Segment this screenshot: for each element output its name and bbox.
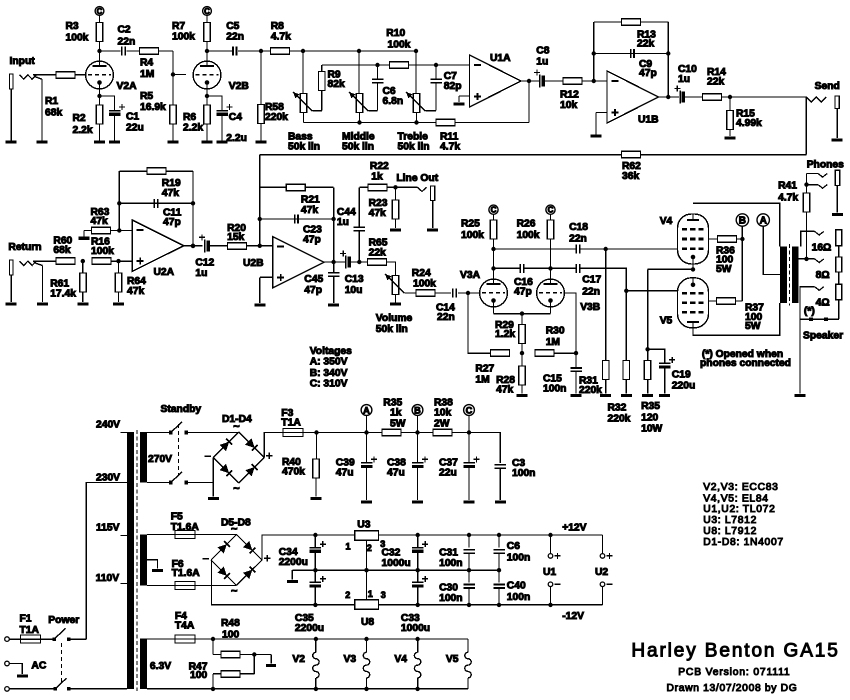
svg-text:1000u: 1000u xyxy=(401,623,430,634)
svg-text:R41: R41 xyxy=(778,181,797,192)
svg-text:240V: 240V xyxy=(96,420,120,431)
svg-text:47u: 47u xyxy=(336,468,354,479)
svg-text:Harley Benton GA15: Harley Benton GA15 xyxy=(631,640,837,661)
svg-text:C4: C4 xyxy=(229,112,242,123)
svg-text:C: 310V: C: 310V xyxy=(310,379,348,390)
svg-text:V2,V3: ECC83: V2,V3: ECC83 xyxy=(703,482,778,493)
svg-text:1.2k: 1.2k xyxy=(495,329,515,340)
svg-text:5W: 5W xyxy=(390,418,406,429)
svg-text:U1A: U1A xyxy=(490,53,511,64)
svg-text:47k: 47k xyxy=(162,188,179,199)
svg-text:1M: 1M xyxy=(475,374,489,385)
svg-text:R4: R4 xyxy=(140,58,153,69)
svg-text:V3B: V3B xyxy=(580,302,600,313)
svg-text:22n: 22n xyxy=(569,234,587,245)
svg-text:C32: C32 xyxy=(382,547,401,558)
svg-text:68k: 68k xyxy=(53,245,70,256)
svg-text:47u: 47u xyxy=(387,468,405,479)
svg-text:47k: 47k xyxy=(301,205,318,216)
svg-text:1u: 1u xyxy=(678,74,690,85)
svg-text:36k: 36k xyxy=(622,171,639,182)
svg-text:V2: V2 xyxy=(292,654,305,665)
svg-text:100k: 100k xyxy=(517,230,540,241)
svg-text:16.9k: 16.9k xyxy=(140,102,166,113)
svg-text:U1,U2: TL072: U1,U2: TL072 xyxy=(703,504,775,515)
svg-text:17.4k: 17.4k xyxy=(50,288,76,299)
svg-text:T4A: T4A xyxy=(175,621,195,632)
svg-text:2: 2 xyxy=(367,543,372,553)
svg-text:100k: 100k xyxy=(91,246,114,257)
svg-text:R22: R22 xyxy=(370,161,389,172)
svg-text:U3: L7812: U3: L7812 xyxy=(703,515,757,526)
svg-text:100n: 100n xyxy=(543,384,566,395)
svg-text:C13: C13 xyxy=(345,274,364,285)
svg-text:470k: 470k xyxy=(282,467,305,478)
svg-text:R7: R7 xyxy=(172,21,185,32)
svg-text:R12: R12 xyxy=(560,89,579,100)
svg-text:8Ω: 8Ω xyxy=(816,270,830,281)
svg-text:100: 100 xyxy=(222,630,239,641)
svg-text:1k: 1k xyxy=(390,408,402,419)
svg-text:AC: AC xyxy=(31,661,46,672)
svg-text:PCB Version: 071111: PCB Version: 071111 xyxy=(678,667,790,678)
svg-text:U2A: U2A xyxy=(154,267,175,278)
svg-text:10k: 10k xyxy=(434,408,451,419)
svg-text:47k: 47k xyxy=(369,208,386,219)
svg-text:100k: 100k xyxy=(66,33,89,44)
svg-text:C1: C1 xyxy=(126,112,139,123)
svg-text:22u: 22u xyxy=(126,123,144,134)
svg-text:R5: R5 xyxy=(140,91,153,102)
svg-text:R30: R30 xyxy=(546,326,565,337)
svg-text:T1A: T1A xyxy=(20,625,40,636)
svg-text:47p: 47p xyxy=(303,235,321,246)
svg-text:R6: R6 xyxy=(183,112,196,123)
svg-text:4Ω: 4Ω xyxy=(816,297,830,308)
svg-text:U2B: U2B xyxy=(243,258,264,269)
svg-text:Phones: Phones xyxy=(807,159,844,170)
svg-text:R48: R48 xyxy=(221,618,240,629)
svg-text:R10: R10 xyxy=(386,28,405,39)
svg-text:10u: 10u xyxy=(345,285,363,296)
svg-text:22n: 22n xyxy=(226,32,244,43)
svg-text:C30: C30 xyxy=(439,582,458,593)
svg-text:U8: L7912: U8: L7912 xyxy=(703,526,757,537)
svg-text:1: 1 xyxy=(346,542,351,552)
svg-text:50k lin: 50k lin xyxy=(342,142,374,153)
svg-text:C5: C5 xyxy=(226,21,239,32)
svg-text:22n: 22n xyxy=(118,37,136,48)
svg-text:2: 2 xyxy=(345,590,350,600)
svg-text:115V: 115V xyxy=(96,523,120,534)
svg-text:C19: C19 xyxy=(672,370,691,381)
svg-text:C: C xyxy=(548,206,554,215)
svg-text:U3: U3 xyxy=(357,520,370,531)
svg-text:U1: U1 xyxy=(543,567,556,578)
svg-text:R2: R2 xyxy=(73,113,86,124)
svg-text:22n: 22n xyxy=(582,287,600,298)
svg-text:Send: Send xyxy=(815,81,840,92)
svg-text:B: B xyxy=(414,405,421,415)
svg-text:R3: R3 xyxy=(66,21,79,32)
svg-text:270V: 270V xyxy=(148,454,172,465)
svg-text:V5: V5 xyxy=(660,316,673,327)
svg-text:R26: R26 xyxy=(517,219,536,230)
svg-text:1000u: 1000u xyxy=(382,558,411,569)
svg-text:B: B xyxy=(739,216,746,227)
svg-text:V4: V4 xyxy=(394,654,407,665)
svg-text:R35: R35 xyxy=(641,401,660,412)
svg-text:Power: Power xyxy=(48,615,79,626)
svg-text:V5: V5 xyxy=(446,654,459,665)
svg-text:V2B: V2B xyxy=(229,81,249,92)
svg-text:2.2k: 2.2k xyxy=(183,123,203,134)
svg-text:Return: Return xyxy=(8,242,41,253)
svg-text:1u: 1u xyxy=(536,57,548,68)
svg-text:1M: 1M xyxy=(140,69,154,80)
svg-text:D5-D8: D5-D8 xyxy=(221,518,251,529)
svg-text:100k: 100k xyxy=(461,230,484,241)
svg-text:82p: 82p xyxy=(444,81,462,92)
svg-text:R32: R32 xyxy=(608,403,627,414)
svg-text:R25: R25 xyxy=(461,219,480,230)
svg-text:F1: F1 xyxy=(20,613,32,624)
svg-text:R27: R27 xyxy=(475,364,494,375)
svg-text:50k lin: 50k lin xyxy=(288,142,320,153)
svg-text:110V: 110V xyxy=(96,573,120,584)
svg-text:1u: 1u xyxy=(337,217,349,228)
svg-text:220k: 220k xyxy=(608,414,631,425)
svg-text:C: C xyxy=(466,405,473,415)
svg-text:10W: 10W xyxy=(641,423,662,434)
svg-text:R1: R1 xyxy=(45,96,58,107)
svg-text:V4,V5: EL84: V4,V5: EL84 xyxy=(703,493,769,504)
svg-text:(*): (*) xyxy=(804,306,815,317)
svg-text:1k: 1k xyxy=(371,172,383,183)
svg-text:R8: R8 xyxy=(271,21,284,32)
svg-text:47p: 47p xyxy=(639,68,657,79)
svg-text:T1A: T1A xyxy=(281,418,301,429)
svg-text:phones connected: phones connected xyxy=(700,358,791,369)
svg-text:50k lin: 50k lin xyxy=(376,324,408,335)
svg-text:10k: 10k xyxy=(560,100,577,111)
svg-text:D1-D8: 1N4007: D1-D8: 1N4007 xyxy=(703,537,784,548)
svg-text:100n: 100n xyxy=(439,593,462,604)
svg-text:2200u: 2200u xyxy=(295,623,324,634)
svg-text:C8: C8 xyxy=(536,46,549,57)
svg-text:F5: F5 xyxy=(171,512,183,523)
svg-text:V3: V3 xyxy=(344,654,357,665)
svg-text:6.3V: 6.3V xyxy=(150,661,171,672)
svg-text:2.2u: 2.2u xyxy=(226,133,247,144)
svg-text:C45: C45 xyxy=(304,274,323,285)
svg-text:C6: C6 xyxy=(507,541,520,552)
svg-text:100k: 100k xyxy=(172,32,195,43)
svg-text:~: ~ xyxy=(233,483,240,495)
svg-text:A: 350V: A: 350V xyxy=(310,356,348,367)
svg-text:100n: 100n xyxy=(439,558,462,569)
svg-text:22k: 22k xyxy=(369,248,386,259)
svg-text:V4: V4 xyxy=(660,216,673,227)
svg-text:1M: 1M xyxy=(546,337,560,348)
svg-text:220k: 220k xyxy=(265,112,288,123)
svg-text:5W: 5W xyxy=(745,321,761,332)
svg-text:120: 120 xyxy=(641,412,658,423)
svg-text:3: 3 xyxy=(381,590,386,600)
svg-text:V3A: V3A xyxy=(460,270,481,281)
svg-text:U8: U8 xyxy=(361,617,374,628)
svg-text:100n: 100n xyxy=(507,592,530,603)
svg-text:C17: C17 xyxy=(582,275,601,286)
svg-text:D1-D4: D1-D4 xyxy=(222,414,252,425)
svg-text:47k: 47k xyxy=(127,286,144,297)
svg-text:100k: 100k xyxy=(388,40,411,51)
svg-text:220u: 220u xyxy=(672,381,695,392)
svg-text:Volume: Volume xyxy=(376,313,413,324)
svg-text:Line Out: Line Out xyxy=(396,173,438,184)
svg-text:2200u: 2200u xyxy=(279,557,308,568)
svg-text:47p: 47p xyxy=(304,285,322,296)
svg-text:Drawn 13/07/2008 by DG: Drawn 13/07/2008 by DG xyxy=(667,683,798,694)
svg-text:C: C xyxy=(491,206,497,215)
svg-text:100: 100 xyxy=(190,670,207,681)
svg-text:2W: 2W xyxy=(434,418,450,429)
svg-text:6.8n: 6.8n xyxy=(383,96,404,107)
svg-text:16Ω: 16Ω xyxy=(812,243,832,254)
svg-text:100n: 100n xyxy=(512,468,535,479)
svg-text:C40: C40 xyxy=(507,581,526,592)
svg-text:Input: Input xyxy=(10,56,36,67)
svg-text:1: 1 xyxy=(368,589,373,599)
svg-text:1u: 1u xyxy=(195,268,207,279)
svg-text:100n: 100n xyxy=(507,552,530,563)
svg-text:4.7k: 4.7k xyxy=(440,142,460,153)
svg-text:100k: 100k xyxy=(413,278,436,289)
svg-text:68k: 68k xyxy=(45,108,62,119)
svg-text:4.7k: 4.7k xyxy=(271,32,291,43)
svg-text:A: A xyxy=(760,216,767,227)
svg-text:T1.6A: T1.6A xyxy=(172,568,201,579)
svg-text:22k: 22k xyxy=(707,77,724,88)
svg-text:C31: C31 xyxy=(439,547,458,558)
svg-text:2.2k: 2.2k xyxy=(73,125,93,136)
svg-text:15k: 15k xyxy=(227,232,244,243)
svg-text:47k: 47k xyxy=(91,216,108,227)
svg-text:5W: 5W xyxy=(716,264,732,275)
svg-text:-12V: -12V xyxy=(562,611,584,622)
svg-text:4.99k: 4.99k xyxy=(736,118,762,129)
svg-text:~: ~ xyxy=(231,586,238,598)
svg-text:C12: C12 xyxy=(195,258,214,269)
svg-text:22k: 22k xyxy=(637,39,654,50)
svg-text:U1B: U1B xyxy=(638,115,659,126)
svg-text:U2: U2 xyxy=(595,567,608,578)
svg-text:4.7k: 4.7k xyxy=(778,193,798,204)
svg-text:A: A xyxy=(363,405,370,415)
svg-text:Standby: Standby xyxy=(161,404,202,415)
svg-text:220k: 220k xyxy=(579,385,602,396)
svg-text:+12V: +12V xyxy=(562,523,586,534)
svg-text:47p: 47p xyxy=(514,286,532,297)
svg-text:22n: 22n xyxy=(437,312,455,323)
svg-text:Speaker: Speaker xyxy=(803,331,843,342)
svg-text:22u: 22u xyxy=(439,468,457,479)
svg-text:V2A: V2A xyxy=(117,81,138,92)
svg-text:C: C xyxy=(204,7,210,16)
svg-text:82k: 82k xyxy=(328,79,345,90)
svg-text:C2: C2 xyxy=(118,25,131,36)
svg-text:47p: 47p xyxy=(163,217,181,228)
svg-text:50k lin: 50k lin xyxy=(398,142,430,153)
svg-text:47k: 47k xyxy=(496,385,513,396)
svg-text:C18: C18 xyxy=(569,222,588,233)
svg-text:C: C xyxy=(97,7,103,16)
